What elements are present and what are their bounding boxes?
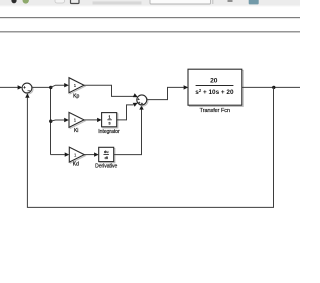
toolbar icon: small gray widget [228,0,233,2]
label Transfer Fcn [200,108,230,114]
gain Kp shadow [70,79,85,94]
svg-text:Kp: Kp [73,94,79,100]
gain Ki shadow [70,114,85,129]
transfer function block shadow [189,70,243,106]
svg-text:s2 + 10s + 20: s2 + 10s + 20 [195,88,234,96]
toolbar icon: teal rectangle [249,0,259,4]
wire: Kd output / Derivative input [84,152,98,156]
transfer function block U1 [188,69,242,105]
canvas top border line [0,31,300,32]
svg-text:du: du [104,149,108,154]
junction dot at branch to Kp [49,86,52,89]
svg-text:Integrator: Integrator [98,129,120,135]
label Integrator [98,129,120,135]
toolbar icon: gray bar [93,1,142,4]
junction dot at branch to Ki [49,120,52,123]
svg-text:−: − [28,88,31,93]
svg-text:Kd: Kd [73,161,79,167]
integrator block [102,113,117,127]
toolbar icon: green circle [23,0,29,4]
wire: branch to Kd input [51,152,70,156]
wire: Sum1 output to branch point [32,86,52,88]
wire: branch to Ki input [51,118,69,122]
gain Kd [69,147,84,162]
wire: Derivative output to Sum2 bottom [114,105,144,154]
sum junction Sum2 shadow [138,96,148,106]
wire: vertical branch line [50,88,52,155]
wire: Sum2 output to Transfer Fcn [147,85,188,99]
toolbar bottom border line [0,17,300,18]
toolbar icon: text field [150,0,211,4]
toolbar icon: light pill [55,0,65,3]
gain Kp [69,78,84,93]
toolbar icon: dark circle [11,0,16,3]
label Kd [73,161,79,167]
derivative block [99,147,114,161]
wire: Ki output to Integrator [84,118,102,122]
gain Ki [69,112,84,127]
label Kp [73,94,79,100]
label Derivative [95,163,117,169]
wire: branch to Kp input [51,83,69,87]
sum junction Sum2 [137,95,147,106]
toolbar icon: bordered rectangle [71,0,80,4]
wire: Integrator output to Sum2 lower-left [117,101,139,120]
toolbar strip background [0,0,300,7]
sum junction Sum1 shadow [23,84,33,94]
label Ki [74,128,78,134]
wire: Transfer Fcn output to right edge [242,86,300,88]
svg-text:Derivative: Derivative [95,163,117,169]
svg-text:Transfer Fcn: Transfer Fcn [200,108,230,114]
wire: feedback loop to Sum1 bottom [25,87,273,207]
toolbar icon: separator [212,0,213,4]
svg-text:s: s [108,121,110,126]
svg-text:20: 20 [210,77,218,84]
wire: input from left edge into Sum1 [0,85,22,89]
wire: Kp output to Sum2 upper-left [84,85,139,99]
gain Kd shadow [70,148,85,163]
sum junction Sum1 [22,83,32,93]
derivative block shadow [100,149,115,163]
junction dot on output wire [272,86,275,89]
svg-text:Ki: Ki [74,128,78,134]
svg-text:+: + [23,85,26,90]
integrator block shadow [103,114,118,128]
